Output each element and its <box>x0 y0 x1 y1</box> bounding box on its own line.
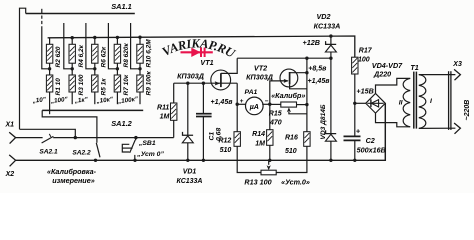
wire primary top to X3 <box>419 74 456 76</box>
resistor R6 <box>92 44 98 63</box>
wire R6 bottom <box>94 63 96 69</box>
potentiometer R13 wiper arrow <box>267 160 271 170</box>
wire R9 top <box>139 69 141 75</box>
wire R7 bottom contact SA1.2 <box>116 92 118 104</box>
svg-text:SA2.2: SA2.2 <box>72 150 91 157</box>
wire R11 bottom <box>173 120 175 137</box>
node VD2 bottom <box>329 57 332 60</box>
label VT1 <box>200 58 213 67</box>
switch SA1.1 contact 2 <box>64 23 72 69</box>
node R15 right <box>305 103 308 106</box>
label VT2 type <box>246 72 273 81</box>
wire R3 top <box>71 69 73 75</box>
resistor R1 <box>46 75 52 92</box>
node junction col 2 <box>71 67 74 70</box>
label Ust.0 <box>281 177 310 186</box>
label range „10” <box>31 96 47 105</box>
label R9 100к <box>146 71 153 96</box>
resistor R17 <box>352 57 358 74</box>
wire VD2 top <box>330 36 332 44</box>
label VT1 type <box>177 71 204 80</box>
wire R10 bottom <box>139 63 141 69</box>
svg-text:510: 510 <box>285 148 297 155</box>
wire R14 bottom <box>269 145 271 160</box>
label R15 value <box>269 120 282 127</box>
label R15 <box>269 111 282 118</box>
label R1 10 <box>55 78 62 96</box>
svg-text:КП303Д: КП303Д <box>246 72 273 81</box>
svg-text:I: I <box>430 98 432 105</box>
label R12 <box>218 137 231 144</box>
wire SA2.1 to R11 <box>53 137 174 139</box>
wire VT1 source <box>236 83 238 104</box>
label X2 <box>5 171 15 178</box>
diode VD2 <box>325 41 336 52</box>
label R11 value <box>160 114 170 121</box>
label C2 value <box>357 146 386 155</box>
label R12 value <box>220 147 232 154</box>
wire VT2 source <box>290 84 307 89</box>
resistor R16 <box>304 132 310 147</box>
svg-text:РА1: РА1 <box>245 89 258 96</box>
svg-text:II: II <box>399 100 403 107</box>
node SA2.2 on X2 rail <box>94 159 97 162</box>
wire R3 bottom contact SA1.2 <box>71 92 73 104</box>
svg-text:VD4-VD7: VD4-VD7 <box>372 61 403 70</box>
wire VT1 gate line <box>174 82 238 84</box>
terminal X1 <box>9 132 15 143</box>
svg-text:1М: 1М <box>255 140 265 147</box>
node VD2 rail <box>329 34 332 37</box>
node VD1 gate tap <box>186 82 189 85</box>
svg-text:КС133А: КС133А <box>314 22 341 31</box>
label R14 value <box>255 140 265 147</box>
svg-text:SA1.1: SA1.1 <box>111 2 132 11</box>
svg-text:R9 100к: R9 100к <box>146 71 153 96</box>
label R16 value <box>285 148 297 155</box>
diode VD1 <box>182 132 193 143</box>
wire R15 left <box>270 103 281 105</box>
wire +12V top rail <box>48 36 355 57</box>
switch SA1.1 contact 5 <box>131 23 140 69</box>
wire R4 bottom <box>71 63 73 69</box>
transistor VT2 channel <box>289 72 291 84</box>
label +12V <box>303 38 320 47</box>
svg-text:R6 62к: R6 62к <box>100 46 107 67</box>
label range „100” <box>50 96 69 105</box>
wire bridge bottom to winding II <box>376 113 411 127</box>
wire R8 top <box>116 37 118 44</box>
label T1 <box>410 63 418 72</box>
label R7 10к <box>123 74 130 95</box>
label VD2 type <box>314 22 341 31</box>
svg-text:С1: С1 <box>208 132 215 141</box>
svg-text:С2: С2 <box>366 136 375 145</box>
wire R11 top from gate line <box>173 83 175 103</box>
svg-text:1М: 1М <box>160 114 170 121</box>
label VD1 type <box>176 178 202 185</box>
label +1,45v left <box>211 99 234 106</box>
wire left rail link <box>20 129 76 137</box>
label R16 <box>285 134 298 141</box>
svg-text:„SB1: „SB1 <box>138 140 156 147</box>
svg-text:«Калибровка-: «Калибровка- <box>47 167 97 176</box>
label 220V <box>464 100 471 121</box>
wire bridge plus <box>355 102 366 104</box>
wire R10 top <box>139 37 141 44</box>
svg-text:„Уст 0”: „Уст 0” <box>136 151 164 158</box>
svg-text:КС133А: КС133А <box>176 178 202 185</box>
svg-text:«Калибр»: «Калибр» <box>271 91 305 100</box>
node SB1 on rail <box>133 159 136 162</box>
wire C2 bottom <box>354 141 356 160</box>
wire VD1 vertical <box>187 83 189 135</box>
svg-text:µА: µА <box>249 103 259 111</box>
label VD1 <box>183 169 197 176</box>
svg-text:+: + <box>356 127 361 136</box>
label R17 <box>359 48 373 55</box>
wire R6 top <box>94 38 96 45</box>
node SB1 tap <box>134 136 137 139</box>
wire R15 right <box>297 104 307 106</box>
svg-text:+8,5в: +8,5в <box>308 65 327 72</box>
node on +12V rail col 2 <box>71 36 74 39</box>
rectifier VD4-VD7 diamond <box>366 94 386 114</box>
switch SA2.2 label <box>72 150 91 157</box>
label +1,45v right <box>308 78 331 85</box>
node VT1 source / R12 / PA1 <box>236 103 239 106</box>
label R6 62к <box>100 46 107 67</box>
terminal X3 bottom <box>454 123 460 134</box>
watermark arc text <box>160 36 238 61</box>
svg-text:VT1: VT1 <box>200 58 213 67</box>
node on +12V rail col 3 <box>93 36 96 39</box>
switch SA2.2 blade <box>96 143 100 158</box>
transformer T1 core <box>414 72 417 129</box>
label C1 <box>208 132 215 141</box>
wire R2 top <box>49 38 51 45</box>
watermark red diode <box>181 48 213 57</box>
wire bridge top to winding II <box>376 78 411 93</box>
svg-text:500х16В: 500х16В <box>357 146 386 155</box>
svg-text:X1: X1 <box>5 121 15 128</box>
svg-text:«Уст.0»: «Уст.0» <box>281 177 310 186</box>
svg-text:~220В: ~220В <box>464 100 471 121</box>
label R11 <box>157 104 169 111</box>
svg-text:X2: X2 <box>5 171 15 178</box>
wire R9 bottom contact SA1.2 <box>139 92 141 104</box>
switch SB1 top stub <box>135 138 137 141</box>
node junction col 5 <box>138 67 141 70</box>
transistor VT1 channel <box>220 73 222 87</box>
label R13 100 <box>244 177 271 186</box>
wire VT1 drain <box>221 58 237 73</box>
resistor R5 <box>92 75 98 92</box>
label C2 plus <box>356 127 361 136</box>
label C1 value <box>215 128 222 141</box>
resistor R2 <box>46 44 52 63</box>
label +15V <box>356 86 373 95</box>
resistor R14 <box>267 130 273 146</box>
wire X2 ground rail <box>16 103 386 160</box>
wire SA1.1 wiper line <box>26 13 135 15</box>
potentiometer R15 wiper <box>287 107 307 113</box>
diode VD3 <box>325 130 336 141</box>
label R17 value <box>358 57 370 64</box>
connector X3 bars <box>449 71 451 130</box>
label R2 620 <box>55 46 62 67</box>
resistor R4 <box>69 44 75 63</box>
wire R1 top <box>49 69 51 75</box>
wire to PA1 plus <box>237 103 246 105</box>
label R4 6,2к <box>78 44 85 67</box>
label R14 <box>252 131 265 138</box>
node VD3 rail <box>329 159 332 162</box>
switch SA1.1 contact 4 <box>108 23 117 69</box>
node C1 gate tap <box>202 82 205 85</box>
label R8 620к <box>123 43 130 68</box>
wire VD1 to rail <box>187 143 189 161</box>
svg-text:VD2: VD2 <box>317 12 331 21</box>
svg-text:R1 10: R1 10 <box>55 78 62 96</box>
svg-text:R12: R12 <box>218 137 231 144</box>
label PA1 uA <box>249 103 259 111</box>
label Kalibrovka <box>47 167 97 176</box>
svg-text:SA2.1: SA2.1 <box>39 149 58 156</box>
resistor R12 <box>234 132 240 147</box>
node junction col 4 <box>116 67 119 70</box>
resistor R9 <box>137 75 143 92</box>
node junction col 3 <box>93 67 96 70</box>
switch SA1.1 label <box>111 2 132 11</box>
wire VD2 to VD3 <box>330 52 332 134</box>
wire VD3 to rail <box>330 141 332 160</box>
wire PA1 minus to node <box>262 103 270 105</box>
node R14 rail R13 wiper <box>268 159 271 162</box>
label PA1 minus <box>265 98 269 105</box>
label Kalibr <box>271 91 305 100</box>
svg-text:R17: R17 <box>359 48 373 55</box>
wire R5 top <box>94 69 96 75</box>
wire R12 top <box>236 104 238 132</box>
svg-text:+1,45в: +1,45в <box>308 78 331 85</box>
svg-text:100: 100 <box>358 57 370 64</box>
label winding II <box>399 100 403 107</box>
svg-text:Д220: Д220 <box>373 70 391 79</box>
wire R12 bottom to R13 left <box>237 146 261 172</box>
node bridge plus <box>353 102 356 105</box>
rectifier inner diode <box>367 99 383 107</box>
svg-text:SA1.2: SA1.2 <box>111 119 132 128</box>
terminal X3 top <box>454 69 460 80</box>
label VD2 <box>317 12 331 21</box>
svg-text:R5 1к: R5 1к <box>100 78 107 96</box>
wire R5 bottom contact SA1.2 <box>94 92 96 104</box>
wire R17 bottom <box>354 74 356 136</box>
node C1 rail <box>202 159 205 162</box>
svg-text:R15: R15 <box>269 111 282 118</box>
switch SA1.1 mechanical link dashes <box>41 16 43 28</box>
label VD3 type <box>320 104 327 139</box>
svg-text:+1,45в: +1,45в <box>211 99 234 106</box>
capacitor C2 <box>344 136 361 140</box>
svg-text:КП303Д: КП303Д <box>177 71 204 80</box>
wire R4 top <box>71 38 73 45</box>
svg-text:R4 6,2к: R4 6,2к <box>78 44 85 67</box>
svg-text:+15В: +15В <box>356 86 373 95</box>
transistor VT1 body <box>211 70 231 90</box>
node link to X1 net <box>74 136 77 139</box>
resistor R10 <box>137 44 143 63</box>
svg-text:510: 510 <box>220 147 232 154</box>
node VD1 rail <box>186 159 189 162</box>
label winding I <box>430 98 432 105</box>
switch SA1.1 contact 3 <box>86 23 95 69</box>
label R3 100 <box>78 74 85 95</box>
svg-text:R16: R16 <box>285 134 298 141</box>
wire VT2 gate riser <box>270 81 285 104</box>
svg-text:+12В: +12В <box>303 38 320 47</box>
label Ust 0 <box>136 151 164 158</box>
label izmerenie <box>52 176 94 185</box>
label D220 <box>373 70 391 79</box>
resistor R8 <box>114 44 120 63</box>
node junction col 1 <box>48 67 51 70</box>
switch SA1.2 wiper line <box>42 109 143 111</box>
wire R7 top <box>116 69 118 75</box>
svg-text:VD1: VD1 <box>183 169 197 176</box>
svg-text:X3: X3 <box>452 61 462 68</box>
node C2 rail <box>353 159 356 162</box>
wire primary bottom to X3 <box>419 127 456 129</box>
node VT2 drain riser <box>305 57 308 60</box>
wire SA1.2 wiper to SA2.2 <box>42 110 97 142</box>
switch SB1 plunger <box>122 144 129 152</box>
switch SA1.1 contact 1 <box>42 27 50 69</box>
label X3 <box>452 61 462 68</box>
wire VT2 drain <box>290 58 309 132</box>
svg-text:R8 620к: R8 620к <box>123 43 130 68</box>
label X1 <box>5 121 15 128</box>
meter PA1 <box>246 97 264 115</box>
switch SA2.1 label <box>39 149 58 156</box>
switch SB1 plunger mid <box>122 147 132 149</box>
node on +12V rail col 4 <box>116 36 119 39</box>
potentiometer R13 <box>261 170 276 175</box>
svg-text:VT2: VT2 <box>254 63 267 72</box>
transformer T1 winding I <box>419 75 426 129</box>
label VD4-VD7 <box>372 61 403 70</box>
transistor VT1 gate arrow <box>215 81 220 85</box>
capacitor C1 <box>196 114 212 117</box>
terminal X2 <box>9 155 15 166</box>
wire X1 left rail with top jog <box>20 8 26 129</box>
switch SA1.2 label <box>111 119 132 128</box>
svg-text:Т1: Т1 <box>410 63 418 72</box>
node on +12V rail col 5 <box>138 36 141 39</box>
svg-text:R7 10к: R7 10к <box>123 74 130 95</box>
wire X1 to SA2.1 <box>16 137 43 139</box>
svg-text:R14: R14 <box>252 131 265 138</box>
svg-text:470: 470 <box>269 120 282 127</box>
switch SA2.1 blade <box>42 134 54 143</box>
label C2 <box>366 136 375 145</box>
label R5 1к <box>100 78 107 96</box>
wire C1 bottom <box>202 117 204 160</box>
wire R14 top <box>269 104 271 130</box>
switch SA1.1 contact 1 tick <box>41 9 43 14</box>
wire R2 bottom <box>49 63 51 69</box>
label R10 6,2М <box>146 39 153 68</box>
svg-text:R3 100: R3 100 <box>78 74 85 95</box>
label +8,5v <box>308 65 327 72</box>
switch SB1 label <box>138 140 156 147</box>
svg-text:измерение»: измерение» <box>52 176 94 185</box>
switch SB1 blade <box>130 140 136 153</box>
label range „100к” <box>117 96 140 106</box>
transistor VT2 gate arrow <box>280 79 289 83</box>
wire R16 bottom to R13 right <box>276 146 307 172</box>
wire R8 bottom <box>116 63 118 69</box>
resistor R7 <box>114 75 120 92</box>
switch SB1 bottom stub <box>134 155 136 160</box>
label range „1к” <box>73 96 89 105</box>
label VT2 <box>254 63 267 72</box>
wire R1 bottom through SA1.2 wiper <box>49 92 51 114</box>
wire C1 top <box>202 83 204 113</box>
svg-text:R13 100: R13 100 <box>244 177 271 186</box>
label range „10к” <box>95 96 114 105</box>
label PA1 plus <box>240 98 244 105</box>
resistor R11 <box>171 103 177 120</box>
label PA1 <box>245 89 258 96</box>
svg-text:R10 6,2М: R10 6,2М <box>146 39 153 68</box>
svg-text:R11: R11 <box>157 104 169 111</box>
transistor VT2 body <box>280 69 298 87</box>
wire +8.5V line <box>237 57 331 59</box>
node PA1 minus / R14 / gate VT2 <box>268 103 271 106</box>
transformer T1 winding II <box>403 78 410 126</box>
resistor R3 <box>69 75 75 92</box>
svg-text:R2 620: R2 620 <box>55 46 62 67</box>
potentiometer R15 <box>281 102 297 107</box>
